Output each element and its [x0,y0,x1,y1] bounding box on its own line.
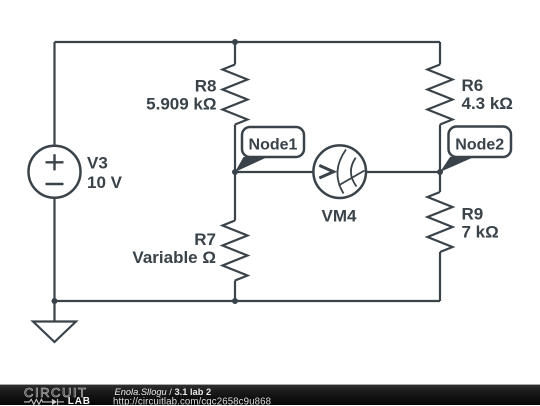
svg-text:R8: R8 [195,77,217,96]
svg-text:VM4: VM4 [322,207,358,226]
wire voltmeter to Node2 [366,171,440,173]
voltmeter arc 1 [337,150,346,194]
svg-text:R6: R6 [462,76,484,95]
wire Node1 to voltmeter [235,171,313,173]
svg-text:R9: R9 [462,205,484,224]
node Node2 junction [437,169,443,175]
voltage source minus sign [46,183,64,185]
resistor R9 [428,192,453,252]
wire right rail R6-Node2 [439,125,441,173]
svg-text:LAB: LAB [68,396,91,406]
wire top rail [55,41,441,43]
voltmeter needle [339,171,365,186]
voltmeter VM4 circle [313,145,366,198]
voltmeter chevron [319,165,333,178]
node Node2 callout box [449,127,512,158]
node Node1 junction [232,169,238,175]
voltage source plus sign [46,154,64,184]
voltmeter arc 2 [351,158,357,187]
wire right rail R9-bottom [439,252,441,301]
svg-text:Node1: Node1 [249,136,298,153]
wire left rail upper [53,42,55,146]
wire ground stem [53,301,55,322]
svg-text:Variable Ω: Variable Ω [132,248,216,267]
resistor R7 [223,221,248,281]
wire right rail top [439,42,441,65]
junction node top mid [232,39,238,45]
voltage source V3 circle [29,146,81,198]
svg-text:4.3 kΩ: 4.3 kΩ [462,94,513,113]
ground [33,322,76,343]
wire mid rail R7-bottom [234,281,236,302]
wire mid rail R8-Node1 [234,125,236,173]
resistor R6 [428,65,453,125]
resistor R8 [223,65,248,125]
wire mid rail top [234,42,236,65]
node Node1 callout box [242,127,304,157]
wire mid rail Node1-R7 [234,172,236,221]
logo diode triangle [52,399,57,405]
svg-text:10 V: 10 V [87,173,123,192]
junction node bottom left [52,298,58,304]
svg-text:5.909 kΩ: 5.909 kΩ [146,95,216,114]
svg-text:V3: V3 [87,154,108,173]
wire right rail Node2-R9 [439,172,441,192]
node Node1 callout pointer [235,157,268,172]
junction node bottom mid [232,298,238,304]
wire bottom rail [55,300,441,302]
svg-text:Node2: Node2 [455,136,504,153]
wire left rail lower [53,198,55,301]
logo resistor-diode glyph [24,399,64,405]
svg-text:R7: R7 [194,230,216,249]
node Node2 callout pointer [440,157,474,172]
svg-text:7 kΩ: 7 kΩ [462,223,499,242]
